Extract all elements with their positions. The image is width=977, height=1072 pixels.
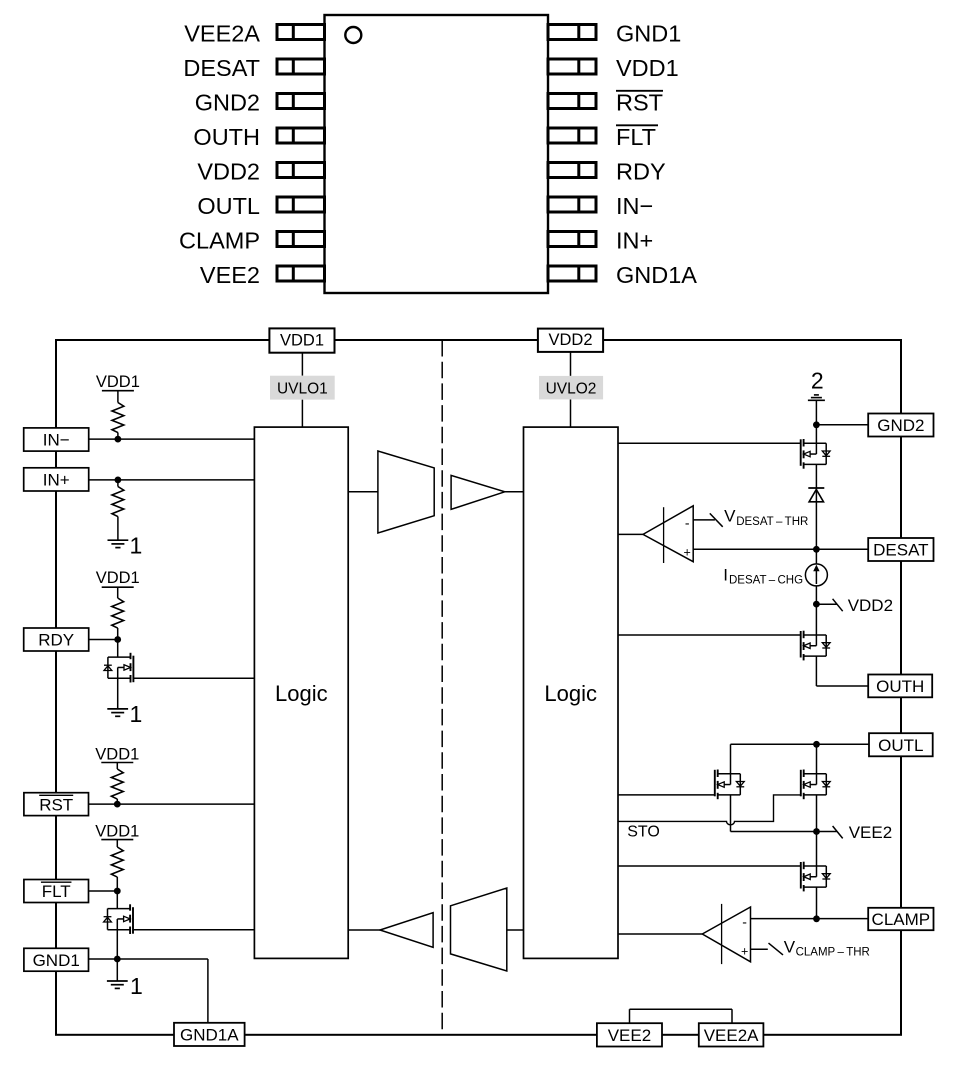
svg-text:-: - — [685, 515, 690, 531]
svg-text:CLAMP: CLAMP — [872, 910, 931, 929]
svg-text:DESAT – THR: DESAT – THR — [736, 516, 808, 528]
svg-text:2: 2 — [811, 368, 824, 394]
svg-text:Logic: Logic — [544, 681, 597, 706]
svg-text:RST: RST — [616, 90, 663, 116]
svg-text:+: + — [684, 546, 691, 560]
svg-text:VEE2: VEE2 — [200, 262, 260, 288]
svg-text:DESAT: DESAT — [183, 55, 260, 81]
svg-text:1: 1 — [130, 533, 143, 559]
svg-text:VDD1: VDD1 — [95, 823, 139, 841]
svg-text:VEE2: VEE2 — [608, 1026, 651, 1045]
svg-text:GND1: GND1 — [616, 21, 681, 47]
svg-text:VDD2: VDD2 — [848, 596, 893, 615]
svg-text:OUTH: OUTH — [876, 677, 924, 696]
svg-text:GND2: GND2 — [877, 416, 924, 435]
svg-text:DESAT: DESAT — [873, 541, 928, 560]
svg-text:CLAMP: CLAMP — [179, 228, 260, 254]
svg-text:GND1: GND1 — [33, 951, 80, 970]
svg-text:FLT: FLT — [616, 124, 656, 150]
svg-text:VDD1: VDD1 — [96, 373, 140, 391]
svg-text:IN−: IN− — [616, 193, 653, 219]
svg-text:RDY: RDY — [38, 631, 74, 650]
svg-text:VDD1: VDD1 — [280, 331, 324, 349]
svg-text:RDY: RDY — [616, 159, 666, 185]
svg-text:IN−: IN− — [43, 431, 70, 450]
svg-text:IN+: IN+ — [43, 471, 70, 490]
svg-text:VDD1: VDD1 — [616, 55, 679, 81]
svg-text:IN+: IN+ — [616, 228, 653, 254]
svg-text:VDD2: VDD2 — [548, 331, 592, 349]
svg-text:GND2: GND2 — [195, 90, 260, 116]
svg-text:VEE2A: VEE2A — [704, 1026, 759, 1045]
svg-text:STO: STO — [627, 824, 660, 841]
svg-text:UVLO2: UVLO2 — [546, 380, 597, 397]
svg-text:V: V — [784, 937, 796, 956]
svg-text:OUTH: OUTH — [193, 124, 260, 150]
svg-text:VDD1: VDD1 — [96, 569, 140, 587]
svg-text:GND1A: GND1A — [180, 1026, 239, 1045]
svg-text:CLAMP – THR: CLAMP – THR — [796, 947, 870, 959]
svg-text:V: V — [724, 507, 736, 526]
svg-text:1: 1 — [130, 973, 143, 999]
svg-text:FLT: FLT — [42, 882, 71, 901]
svg-text:OUTL: OUTL — [878, 736, 923, 755]
svg-text:RST: RST — [39, 795, 73, 814]
svg-text:VDD1: VDD1 — [95, 746, 139, 764]
svg-text:OUTL: OUTL — [197, 193, 260, 219]
svg-text:1: 1 — [130, 701, 143, 727]
svg-text:VEE2: VEE2 — [849, 823, 892, 842]
svg-text:VDD2: VDD2 — [197, 159, 260, 185]
svg-text:+: + — [741, 945, 748, 959]
svg-text:VEE2A: VEE2A — [184, 21, 260, 47]
svg-text:GND1A: GND1A — [616, 262, 697, 288]
svg-text:-: - — [742, 914, 747, 930]
svg-text:UVLO1: UVLO1 — [277, 380, 328, 397]
svg-text:I: I — [723, 565, 728, 584]
svg-text:DESAT – CHG: DESAT – CHG — [729, 575, 803, 587]
svg-text:Logic: Logic — [275, 681, 328, 706]
